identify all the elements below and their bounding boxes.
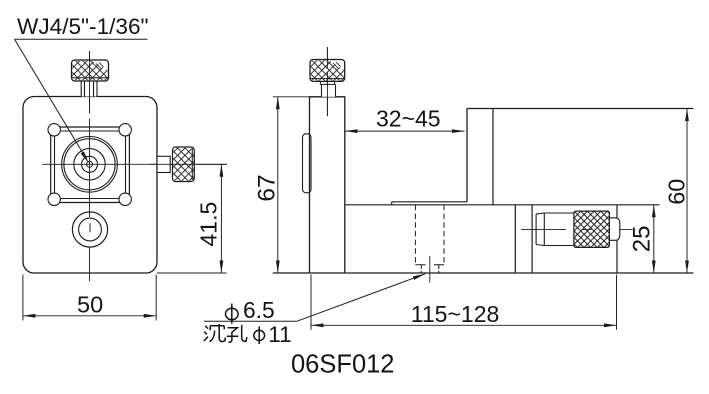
- side view big block: [467, 109, 694, 205]
- micrometer end cap: [609, 218, 619, 241]
- side view base right edge: [616, 205, 618, 273]
- left view vertical centerline: [89, 51, 91, 281]
- leader line for hole callout: [204, 274, 425, 322]
- side view column: [310, 97, 345, 273]
- plate corner screw bottom-right: [119, 193, 131, 205]
- svg-text:32~45: 32~45: [376, 106, 441, 132]
- left view square plate: [51, 127, 130, 203]
- dimension 32~45: [345, 106, 465, 134]
- svg-text:6.5: 6.5: [243, 297, 275, 323]
- left view side stem: [157, 156, 170, 172]
- side view top stem: [320, 81, 335, 96]
- svg-text:60: 60: [663, 179, 689, 205]
- centerline overlay through side-view knob: [326, 47, 328, 116]
- svg-text:11: 11: [268, 322, 291, 347]
- svg-text:25: 25: [629, 225, 656, 252]
- micrometer knurled thimble: [574, 211, 610, 247]
- svg-text:06SF012: 06SF012: [291, 351, 395, 379]
- left view side knurled knob: [173, 147, 195, 182]
- svg-text:67: 67: [254, 174, 281, 201]
- hidden counterbore hole dashed: [415, 205, 444, 274]
- dimension 41.5: [157, 164, 227, 273]
- svg-text:41.5: 41.5: [196, 202, 222, 247]
- centerline overlay through top knob: [89, 51, 91, 114]
- svg-text:WJ4/5"-1/36": WJ4/5"-1/36": [17, 14, 149, 39]
- hole centerline: [429, 256, 431, 283]
- svg-text:115~128: 115~128: [411, 301, 499, 327]
- micrometer tip: [536, 213, 544, 246]
- label phi 6.5: [226, 297, 275, 324]
- dimension 115~128: [311, 275, 617, 330]
- side view bracket edges: [515, 205, 532, 273]
- lower hole circle: [72, 212, 107, 247]
- svg-text:50: 50: [77, 292, 103, 318]
- micrometer centerline: [521, 229, 633, 231]
- dimension 67: [254, 97, 310, 273]
- lens barrel circles: [62, 137, 118, 193]
- leader line for WJ label: [15, 39, 148, 163]
- plate corner screw top-left: [48, 124, 60, 136]
- side view block bottom plate: [392, 202, 467, 205]
- dimension 50: [23, 275, 156, 321]
- label WJ4/5"-1/36": [17, 14, 149, 39]
- dimension 60: [663, 109, 689, 274]
- side view top knurled knob: [310, 60, 345, 82]
- left view top stem: [81, 81, 97, 97]
- micrometer barrel: [544, 213, 574, 246]
- centerline overlay through side knob: [150, 163, 227, 165]
- part number 06SF012: [291, 351, 395, 379]
- dimension 25: [629, 205, 656, 273]
- left view horizontal centerline: [42, 163, 227, 165]
- side view base bottom edge: [273, 272, 694, 274]
- side view left tab: [303, 134, 312, 193]
- label counterbore phi 11 (Chinese): [204, 322, 292, 347]
- plate corner screw top-right: [119, 124, 131, 136]
- plate corner screw bottom-left: [48, 193, 60, 205]
- side view knob centerline: [326, 47, 328, 116]
- left view body: [23, 97, 157, 274]
- left view top knurled knob: [72, 60, 109, 81]
- side view base top edge: [345, 204, 660, 206]
